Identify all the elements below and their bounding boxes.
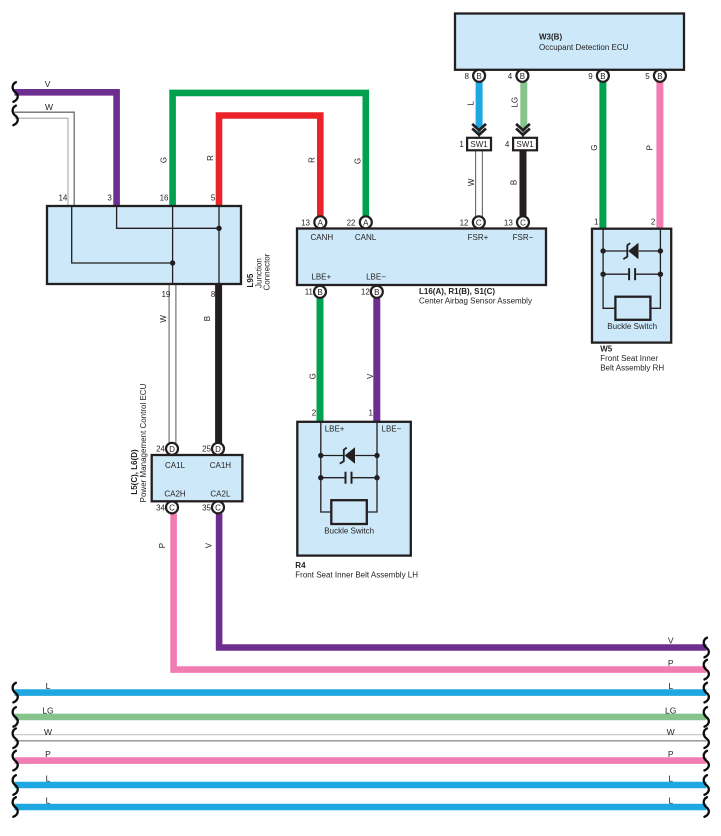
svg-text:8: 8: [211, 290, 216, 299]
svg-text:P: P: [158, 543, 167, 548]
svg-text:A: A: [318, 218, 324, 227]
svg-text:C: C: [169, 503, 175, 512]
svg-text:P: P: [668, 658, 674, 668]
svg-text:14: 14: [58, 194, 67, 203]
svg-text:G: G: [590, 145, 599, 151]
svg-text:L5(C), L6(D): L5(C), L6(D): [130, 449, 139, 495]
svg-text:4: 4: [505, 140, 510, 149]
svg-text:B: B: [374, 288, 379, 297]
svg-text:Front Seat Inner: Front Seat Inner: [600, 354, 658, 363]
svg-text:L: L: [46, 774, 51, 784]
svg-text:Front Seat Inner Belt Assembly: Front Seat Inner Belt Assembly LH: [295, 571, 418, 580]
svg-text:L: L: [46, 796, 51, 806]
svg-text:B: B: [657, 72, 662, 81]
svg-text:LG: LG: [42, 706, 53, 716]
svg-text:Power Management Control ECU: Power Management Control ECU: [139, 383, 148, 502]
svg-text:CA1H: CA1H: [210, 461, 232, 470]
svg-text:L: L: [668, 681, 673, 691]
svg-text:C: C: [520, 218, 526, 227]
svg-text:SW1: SW1: [470, 140, 488, 149]
svg-text:LBE+: LBE+: [325, 424, 345, 433]
svg-text:24: 24: [156, 445, 165, 454]
svg-text:P: P: [45, 749, 51, 759]
svg-text:3: 3: [107, 194, 112, 203]
svg-text:25: 25: [202, 445, 211, 454]
svg-text:W3(B): W3(B): [539, 33, 562, 42]
svg-text:G: G: [354, 158, 363, 164]
svg-text:B: B: [476, 72, 481, 81]
svg-text:V: V: [204, 542, 213, 548]
svg-text:D: D: [215, 445, 221, 454]
svg-text:W5: W5: [600, 345, 613, 354]
svg-text:LBE+: LBE+: [311, 272, 331, 281]
svg-text:19: 19: [161, 290, 170, 299]
svg-text:CA2H: CA2H: [164, 490, 186, 499]
svg-text:1: 1: [459, 140, 464, 149]
svg-text:V: V: [45, 79, 51, 89]
svg-text:CA1L: CA1L: [165, 461, 186, 470]
svg-text:5: 5: [645, 72, 650, 81]
svg-text:12: 12: [460, 219, 469, 228]
svg-text:16: 16: [160, 194, 169, 203]
svg-text:5: 5: [211, 194, 216, 203]
svg-text:B: B: [600, 72, 605, 81]
svg-text:Connector: Connector: [262, 253, 271, 290]
svg-text:R: R: [308, 157, 317, 163]
svg-text:C: C: [476, 218, 482, 227]
svg-text:1: 1: [368, 409, 373, 418]
svg-text:Belt Assembly RH: Belt Assembly RH: [600, 364, 664, 373]
svg-text:SW1: SW1: [516, 140, 534, 149]
svg-text:CA2L: CA2L: [210, 490, 231, 499]
svg-text:FSR−: FSR−: [513, 233, 534, 242]
svg-text:G: G: [160, 157, 169, 163]
svg-text:Center Airbag Sensor Assembly: Center Airbag Sensor Assembly: [419, 296, 532, 305]
svg-text:FSR+: FSR+: [468, 233, 489, 242]
svg-text:9: 9: [588, 72, 593, 81]
svg-text:V: V: [366, 373, 375, 379]
svg-text:LG: LG: [665, 706, 676, 716]
svg-text:1: 1: [594, 218, 599, 227]
svg-text:8: 8: [464, 72, 469, 81]
svg-text:Buckle Switch: Buckle Switch: [607, 322, 657, 331]
svg-text:P: P: [668, 749, 674, 759]
svg-text:LBE−: LBE−: [366, 272, 386, 281]
svg-text:D: D: [169, 445, 175, 454]
svg-text:34: 34: [156, 504, 165, 513]
svg-text:L: L: [466, 101, 475, 106]
svg-text:C: C: [215, 503, 221, 512]
svg-text:L: L: [46, 681, 51, 691]
svg-text:2: 2: [312, 409, 317, 418]
svg-text:12: 12: [361, 287, 370, 296]
svg-text:CANH: CANH: [310, 233, 333, 242]
svg-text:2: 2: [651, 218, 656, 227]
svg-text:22: 22: [347, 219, 356, 228]
svg-text:4: 4: [508, 72, 513, 81]
svg-text:P: P: [645, 145, 654, 150]
svg-text:W: W: [45, 102, 53, 112]
svg-text:W: W: [467, 178, 476, 186]
svg-text:LBE−: LBE−: [382, 424, 402, 433]
svg-text:L: L: [668, 796, 673, 806]
svg-text:13: 13: [504, 219, 513, 228]
svg-text:A: A: [363, 218, 369, 227]
svg-text:Occupant Detection ECU: Occupant Detection ECU: [539, 43, 629, 52]
svg-text:W: W: [667, 727, 675, 737]
svg-text:13: 13: [301, 219, 310, 228]
svg-text:V: V: [668, 636, 674, 646]
svg-text:B: B: [203, 316, 212, 321]
svg-text:L: L: [668, 774, 673, 784]
svg-text:LG: LG: [511, 97, 520, 108]
svg-text:W: W: [159, 315, 168, 323]
svg-text:35: 35: [202, 504, 211, 513]
svg-text:G: G: [308, 373, 317, 379]
svg-text:R4: R4: [295, 561, 306, 570]
svg-text:CANL: CANL: [355, 233, 377, 242]
svg-text:L16(A), R1(B), S1(C): L16(A), R1(B), S1(C): [419, 287, 495, 296]
svg-text:B: B: [520, 72, 525, 81]
svg-text:B: B: [510, 180, 519, 185]
svg-text:11: 11: [305, 287, 314, 296]
svg-text:Buckle Switch: Buckle Switch: [324, 526, 374, 535]
svg-text:B: B: [317, 288, 322, 297]
svg-text:W: W: [44, 727, 52, 737]
svg-text:R: R: [206, 155, 215, 161]
